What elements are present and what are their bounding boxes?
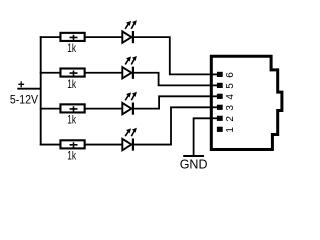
pin 3 xyxy=(217,105,223,110)
resistor R2 1k xyxy=(60,69,84,77)
LED D4 xyxy=(122,128,137,151)
svg-text:5-12V: 5-12V xyxy=(10,92,39,106)
wire R2 to LED2 xyxy=(85,72,124,74)
wire bus to R3 xyxy=(40,108,61,110)
wire R1 to LED1 xyxy=(85,36,124,38)
svg-text:3: 3 xyxy=(225,105,236,111)
connector J1 (modular jack) xyxy=(211,56,282,149)
wire ground to connector pin 2 xyxy=(194,118,213,155)
wire bus to R4 xyxy=(40,144,61,146)
wire R4 to LED4 xyxy=(85,144,124,146)
battery plus terminal xyxy=(18,81,24,87)
pin 5 xyxy=(217,83,223,88)
resistor R3 1k xyxy=(60,104,84,112)
svg-text:1k: 1k xyxy=(67,77,76,91)
svg-text:6: 6 xyxy=(225,72,236,78)
wire LED2 to connector pin 5 xyxy=(133,73,213,86)
resistor R1 1k xyxy=(60,33,84,41)
ground xyxy=(183,155,204,157)
wire supply bus xyxy=(40,36,42,145)
wire bus to R1 xyxy=(40,36,61,38)
svg-text:GND: GND xyxy=(180,158,208,172)
svg-text:1k: 1k xyxy=(67,149,76,163)
pin 1 xyxy=(217,127,223,132)
svg-text:1: 1 xyxy=(225,127,236,133)
wire stubs at connector pins xyxy=(211,73,218,75)
svg-text:2: 2 xyxy=(225,116,236,122)
svg-text:5: 5 xyxy=(225,83,236,89)
pin 6 xyxy=(217,72,223,77)
svg-text:1k: 1k xyxy=(67,113,76,127)
pin 4 xyxy=(217,94,223,99)
svg-text:1k: 1k xyxy=(67,41,76,55)
wire bus to R2 xyxy=(40,72,61,74)
wire LED4 to connector pin 3 xyxy=(133,107,213,144)
wire supply to bus xyxy=(17,88,40,90)
pin 2 xyxy=(217,116,223,121)
svg-text:4: 4 xyxy=(225,94,236,100)
wire LED1 to connector pin 6 xyxy=(133,37,213,74)
wire LED3 to connector pin 4 xyxy=(133,96,213,108)
LED D3 xyxy=(122,92,137,115)
LED D1 xyxy=(122,20,137,43)
resistor R4 1k xyxy=(60,140,84,148)
LED D2 xyxy=(122,56,137,79)
wire R3 to LED3 xyxy=(85,108,124,110)
